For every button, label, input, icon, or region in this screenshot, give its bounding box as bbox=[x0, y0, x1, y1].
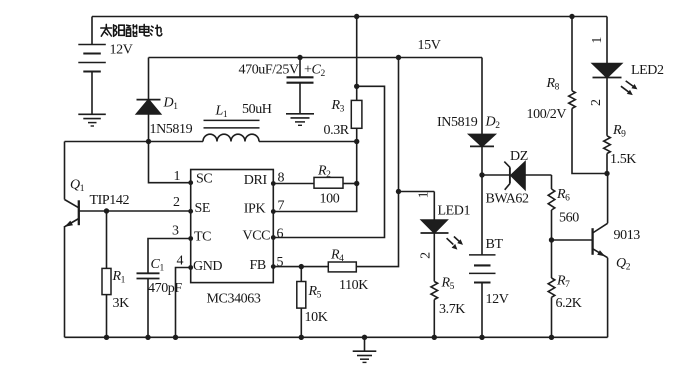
LED1 light arrows bbox=[447, 237, 463, 250]
wire R3 bottom to switch node and IPK bbox=[273, 128, 356, 211]
svg-text:9013: 9013 bbox=[614, 228, 641, 243]
svg-text:L1: L1 bbox=[215, 104, 228, 121]
svg-text:1: 1 bbox=[174, 169, 181, 184]
wire Q1 base to pin 2 SE bbox=[79, 210, 191, 212]
capacitor C1 470pF bbox=[137, 273, 160, 278]
diode D1 1N5819 bbox=[137, 58, 161, 142]
resistor R8 100/2V zigzag bbox=[569, 91, 576, 109]
svg-text:15V: 15V bbox=[418, 38, 441, 53]
wire pin 5 FB to R4 bbox=[273, 266, 328, 268]
wire top rail down to LED2 bbox=[606, 17, 608, 64]
wire 15V down to FB network bbox=[356, 58, 398, 267]
svg-text:IN5819: IN5819 bbox=[437, 115, 478, 130]
wire pin 3 TC to C1 bbox=[148, 239, 191, 274]
svg-text:DRI: DRI bbox=[244, 173, 268, 188]
junction node R2 at switch line bbox=[354, 181, 359, 186]
resistor R5 10K bbox=[297, 282, 306, 309]
svg-text:560: 560 bbox=[559, 210, 579, 225]
svg-text:3.7K: 3.7K bbox=[439, 302, 465, 317]
svg-text:470pF: 470pF bbox=[148, 281, 182, 296]
svg-text:12V: 12V bbox=[110, 43, 133, 58]
junction node ground at pin4 bbox=[173, 335, 178, 340]
LED1 bbox=[421, 192, 449, 282]
LED2 bbox=[593, 64, 622, 136]
ground (main) bbox=[353, 337, 377, 362]
wire D2 node to DZ bbox=[482, 174, 510, 176]
junction node ground at LED1 branch bbox=[432, 335, 437, 340]
svg-text:SE: SE bbox=[195, 201, 211, 216]
svg-text:D2: D2 bbox=[485, 115, 501, 132]
svg-text:100: 100 bbox=[320, 191, 340, 206]
svg-text:R7: R7 bbox=[556, 273, 570, 290]
junction node switch rail at R3 bbox=[354, 139, 359, 144]
op-amp U1 MC34063 body bbox=[191, 170, 274, 283]
transistor Q2 9013 bbox=[593, 174, 608, 338]
svg-text:10K: 10K bbox=[305, 310, 328, 325]
svg-text:Q2: Q2 bbox=[616, 256, 631, 273]
resistor R2 100 bbox=[314, 177, 343, 188]
wire R8 to collector node bbox=[572, 108, 607, 173]
svg-text:DZ: DZ bbox=[510, 149, 528, 164]
svg-text:D1: D1 bbox=[163, 96, 179, 113]
wire solar battery positive lead bbox=[91, 17, 93, 45]
svg-text:IPK: IPK bbox=[244, 202, 266, 217]
LED2 light arrows bbox=[621, 81, 638, 95]
svg-text:1: 1 bbox=[590, 37, 605, 44]
svg-text:R4: R4 bbox=[330, 247, 344, 264]
wire R7 to ground rail bbox=[551, 297, 553, 337]
svg-text:Q1: Q1 bbox=[70, 178, 85, 195]
svg-text:50uH: 50uH bbox=[242, 102, 272, 117]
wire R9 to collector node bbox=[606, 154, 608, 174]
resistor R7 6.2K zigzag bbox=[548, 278, 555, 297]
junction node LED2 R8 collector bbox=[604, 171, 609, 176]
junction node top rail at R3 bbox=[354, 14, 359, 19]
junction node ground at R5 bbox=[299, 335, 304, 340]
svg-text:SC: SC bbox=[196, 172, 212, 187]
svg-text:BWA62: BWA62 bbox=[486, 192, 530, 207]
svg-text:VCC: VCC bbox=[243, 229, 271, 244]
svg-text:12V: 12V bbox=[486, 292, 509, 307]
svg-text:BT: BT bbox=[486, 237, 504, 252]
zener diode DZ BWA62 bbox=[504, 162, 551, 190]
wire pin 4 GND to ground rail bbox=[176, 268, 191, 338]
wire LED1 branch from 15V line bbox=[399, 191, 435, 193]
wire DZ to R6 branch bbox=[551, 175, 553, 189]
wire top supply rail bbox=[92, 16, 607, 18]
svg-text:FB: FB bbox=[250, 258, 266, 273]
svg-text:+C2: +C2 bbox=[304, 62, 325, 79]
junction node R6 R7 base bbox=[549, 237, 554, 242]
wire switch node rail bbox=[65, 141, 357, 143]
wire battery+ down to R3 bbox=[356, 17, 358, 101]
junction node ground at BT bbox=[479, 335, 484, 340]
svg-text:GND: GND bbox=[193, 259, 222, 274]
svg-text:C1: C1 bbox=[151, 257, 165, 274]
wire R5 to ground rail bbox=[300, 308, 302, 337]
svg-text:LED2: LED2 bbox=[631, 63, 664, 78]
wire 15V output rail bbox=[149, 57, 483, 59]
junction node ground at C1 bbox=[145, 335, 150, 340]
inductor L1 50uH bbox=[203, 120, 260, 141]
wire pin 8 DRI to R2 bbox=[273, 183, 314, 185]
svg-text:R9: R9 bbox=[612, 123, 626, 140]
diode D2 IN5819 bbox=[469, 134, 495, 255]
transistor Q1 TIP142 bbox=[65, 142, 79, 338]
svg-text:1N5819: 1N5819 bbox=[150, 122, 193, 137]
svg-text:1.5K: 1.5K bbox=[610, 152, 636, 167]
svg-text:MC34063: MC34063 bbox=[207, 292, 261, 307]
wire R8 branch from top rail bbox=[571, 17, 573, 91]
svg-text:1: 1 bbox=[417, 191, 432, 198]
junction node ground at R1 bbox=[104, 335, 109, 340]
resistor R3 0.3R bbox=[351, 100, 362, 128]
svg-text:2: 2 bbox=[419, 252, 434, 259]
svg-text:R6: R6 bbox=[556, 187, 570, 204]
battery B1 (solar cell 太阳能电池) bbox=[78, 45, 106, 72]
svg-text:7: 7 bbox=[278, 198, 285, 213]
label 太阳能电池 (hand-drawn strokes) bbox=[101, 24, 162, 36]
svg-text:R2: R2 bbox=[317, 163, 331, 180]
wire FB node down to R5 bbox=[300, 267, 302, 282]
ground (C2) bbox=[286, 114, 314, 126]
junction node 15V at FB line bbox=[396, 55, 401, 60]
junction node LED1 branch bbox=[396, 189, 401, 194]
svg-text:5: 5 bbox=[277, 255, 284, 270]
junction node ground symbol bbox=[362, 335, 367, 340]
junction node 15V at C2 bbox=[297, 55, 302, 60]
svg-text:R8: R8 bbox=[546, 76, 560, 93]
wire pin 1 SC to switch node bbox=[149, 142, 191, 183]
svg-text:100/2V: 100/2V bbox=[527, 107, 567, 122]
svg-text:2: 2 bbox=[589, 99, 604, 106]
svg-text:470uF/25V: 470uF/25V bbox=[239, 63, 299, 78]
junction node top rail at R8 bbox=[569, 14, 574, 19]
resistor R4 110K bbox=[328, 262, 356, 272]
junction node ground at R7 bbox=[549, 335, 554, 340]
junction node VCC tap bbox=[354, 84, 359, 89]
svg-text:TIP142: TIP142 bbox=[90, 193, 130, 208]
wire base node down to R1 bbox=[106, 211, 108, 268]
wire 15V rail down to D2 bbox=[481, 58, 483, 135]
resistor R5 3.7K zigzag bbox=[431, 282, 438, 300]
svg-text:4: 4 bbox=[177, 253, 184, 268]
svg-text:3: 3 bbox=[172, 224, 179, 239]
svg-text:3K: 3K bbox=[113, 296, 130, 311]
svg-text:R3: R3 bbox=[331, 98, 345, 115]
svg-text:6.2K: 6.2K bbox=[556, 296, 582, 311]
resistor R6 560 zigzag bbox=[548, 189, 555, 210]
battery BT 12V bbox=[469, 255, 496, 337]
ground (solar battery) bbox=[78, 114, 106, 126]
svg-text:R5: R5 bbox=[441, 276, 455, 293]
svg-text:110K: 110K bbox=[339, 278, 368, 293]
junction node switch rail at D1 bbox=[146, 139, 151, 144]
wire R1 to ground rail bbox=[106, 295, 108, 338]
wire R6 to base node bbox=[551, 210, 553, 278]
junction node D2 DZ BT bbox=[479, 172, 484, 177]
wire R2 to switch node line bbox=[343, 183, 357, 185]
svg-text:R1: R1 bbox=[112, 269, 126, 286]
resistor R9 1.5K zigzag bbox=[604, 136, 611, 154]
svg-text:2: 2 bbox=[173, 195, 180, 210]
wire C1 to ground rail bbox=[147, 279, 149, 338]
junction node Q1 base R1 bbox=[104, 208, 109, 213]
wire solar battery negative lead bbox=[91, 72, 93, 115]
wire ground rail bbox=[65, 336, 608, 338]
svg-text:LED1: LED1 bbox=[438, 203, 471, 218]
resistor R1 3K bbox=[102, 268, 111, 294]
svg-text:6: 6 bbox=[277, 227, 284, 242]
wire R5 3.7K to ground rail bbox=[433, 300, 435, 338]
capacitor C2 470uF/25V bbox=[287, 58, 314, 114]
wire base node to Q2 bbox=[552, 239, 593, 241]
svg-text:0.3R: 0.3R bbox=[324, 123, 350, 138]
wire VCC to R3 top node bbox=[273, 86, 384, 237]
svg-text:TC: TC bbox=[194, 229, 211, 244]
pin dots U1 bbox=[188, 180, 275, 270]
junction node FB R5 bbox=[299, 264, 304, 269]
svg-text:R5: R5 bbox=[308, 284, 322, 301]
